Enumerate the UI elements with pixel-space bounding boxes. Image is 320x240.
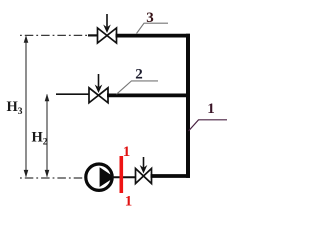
wire: vertical riser pipe 1 <box>186 34 190 178</box>
wire: pipe 3 thick segment to riser <box>116 34 191 38</box>
valve V3 <box>98 28 117 43</box>
dimension line H2 <box>45 94 50 178</box>
valve V1 <box>136 169 152 184</box>
svg-text:3: 3 <box>146 10 154 26</box>
valve V1 actuator arrow <box>140 157 148 174</box>
leader line for label 3 <box>137 23 169 33</box>
wire: pipe 3 centerline (dash-dot) <box>20 34 90 36</box>
pump P1 <box>86 164 115 190</box>
valve V2 <box>89 88 108 103</box>
dimension line H3 <box>24 35 29 177</box>
svg-text:2: 2 <box>135 67 143 83</box>
wire: discharge thick segment to riser <box>151 174 191 178</box>
svg-text:1: 1 <box>207 101 215 117</box>
wire: pipe 2 thin inlet line <box>56 93 90 95</box>
section line 1-1 (red) <box>120 156 124 193</box>
svg-text:1: 1 <box>123 144 131 160</box>
wire: suction centerline (dash-dot) <box>20 177 87 179</box>
svg-text:1: 1 <box>125 194 133 210</box>
valve V2 actuator arrow <box>95 74 103 93</box>
wire: pump outlet line to valve <box>112 176 137 178</box>
valve V3 actuator arrow <box>103 14 111 33</box>
wire: pipe 3 valve inlet stub <box>88 34 98 36</box>
leader line for label 1 <box>189 120 228 131</box>
leader line for label 2 <box>117 81 159 94</box>
wire: pipe 2 thick segment to riser <box>107 94 190 98</box>
